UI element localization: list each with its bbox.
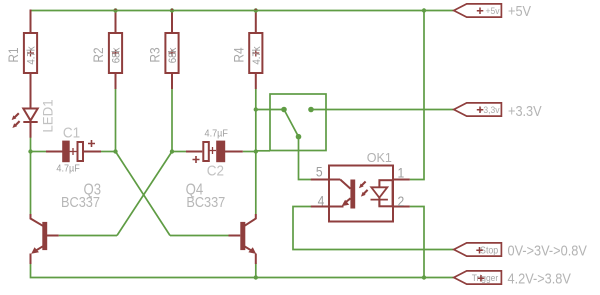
resistor R2 (90, 9, 122, 89)
svg-text:0V->3V->0.8V: 0V->3V->0.8V (508, 241, 588, 258)
wire switch throw to +3.3V flag (311, 109, 454, 111)
origin cross R2 (112, 50, 119, 57)
switch contact bottom throw (296, 134, 302, 140)
svg-text:BC337: BC337 (61, 193, 100, 210)
svg-text:4.7k: 4.7k (26, 46, 38, 65)
node C1 R2 (113, 149, 117, 153)
resistor R1 (5, 10, 37, 109)
node C2 R3 (170, 149, 174, 153)
svg-text:4.7µF: 4.7µF (205, 128, 228, 140)
svg-text:4: 4 (318, 193, 325, 209)
wire switch to OK1 pin5 (299, 137, 312, 180)
svg-text:+5v: +5v (486, 5, 500, 16)
node R4 +3.3V (254, 107, 258, 111)
optocoupler OK1 (311, 150, 410, 222)
node rail pin1 riser (422, 8, 426, 12)
svg-text:Trigger: Trigger (472, 273, 498, 284)
origin cross Stop flag (476, 247, 483, 254)
wire OK1 pin4 to Stop (293, 207, 454, 250)
capacitor C1 (46, 125, 101, 175)
origin cross +5v flag (477, 7, 484, 14)
R4 pin tip (255, 9, 257, 11)
node C2 R4 switch (254, 149, 258, 153)
wire C2 right to junction (243, 151, 256, 153)
wire C1 right to junction (101, 151, 116, 153)
node rail R4 (254, 8, 258, 12)
wire Q3 emitter down + bottom rail (31, 264, 454, 278)
svg-text:R1: R1 (5, 47, 21, 62)
svg-text:4.2V->3.8V: 4.2V->3.8V (508, 269, 572, 286)
switch box outline (270, 94, 326, 151)
transistor Q3 (31, 182, 102, 264)
flag Trigger (454, 269, 572, 286)
wire Q3 base (59, 235, 117, 237)
wire LED to C1 junction (30, 138, 32, 215)
wire cross diagonal B (117, 152, 172, 236)
wire R4 column lower (255, 89, 257, 214)
svg-text:R4: R4 (231, 47, 247, 62)
capacitor C2 (186, 128, 243, 180)
emission arrows (14, 113, 19, 118)
wire junction to switch box (256, 150, 270, 152)
origin cross Trigger flag (478, 275, 485, 282)
origin cross +3,3v flag (477, 106, 484, 113)
switch actuator lever (284, 110, 299, 137)
resistor R3 (147, 9, 179, 89)
wire R2 column lower (115, 89, 117, 152)
wire Q4 base (170, 235, 229, 237)
wire cross diagonal A (116, 152, 171, 236)
svg-text:+5V: +5V (508, 2, 532, 19)
wire junction to C2 left (172, 151, 186, 153)
R3 pin tip (171, 9, 173, 11)
svg-text:68k: 68k (168, 47, 180, 63)
svg-text:OK1: OK1 (367, 150, 392, 165)
svg-text:4.7k: 4.7k (251, 46, 263, 65)
node pin2 riser bottom (422, 275, 426, 279)
LED LED1 (12, 99, 56, 137)
svg-text:4.7µF: 4.7µF (56, 163, 79, 175)
wire R3 column lower (171, 89, 173, 152)
origin cross R4 (252, 50, 259, 57)
wire +3.3V left to switch pole (256, 109, 284, 111)
svg-text:5: 5 (316, 164, 323, 180)
svg-text:R2: R2 (90, 47, 106, 62)
svg-text:+3.3V: +3.3V (508, 102, 542, 119)
node rail R2 (113, 8, 117, 12)
svg-text:C1: C1 (63, 125, 80, 142)
svg-text:2: 2 (398, 193, 405, 209)
svg-text:1: 1 (398, 165, 405, 181)
node rail R3 (170, 8, 174, 12)
wire Q4 emitter down (255, 264, 257, 278)
switch contact left pole (281, 107, 287, 113)
wire OK1 pin1 up to +5V rail (410, 11, 424, 180)
wire OK1 pin2 down to bottom rail (410, 207, 424, 278)
svg-text:C2: C2 (207, 163, 224, 180)
transistor Q4 (186, 182, 256, 264)
polarity plus C1 (88, 140, 95, 147)
switch S1 (270, 94, 326, 151)
svg-text:LED1: LED1 (40, 99, 55, 132)
polarity plus C2 (193, 156, 200, 163)
resistor R4 (231, 9, 263, 89)
origin cross R3 (169, 50, 176, 57)
supply flag +3.3V (454, 102, 543, 119)
svg-text:R3: R3 (147, 47, 163, 62)
svg-text:BC337: BC337 (186, 193, 225, 210)
svg-text:68k: 68k (111, 47, 123, 63)
node Q4 emitter bottom (254, 275, 258, 279)
node LED C1 Q3 (28, 149, 32, 153)
origin cross R1 (27, 50, 34, 57)
wire top +5V rail (31, 11, 455, 33)
switch contact right throw (308, 107, 314, 113)
R2 pin tip (115, 9, 117, 11)
flag Stop (454, 241, 588, 258)
supply flag +5V (454, 2, 532, 19)
wire node to C1 left (31, 151, 47, 153)
